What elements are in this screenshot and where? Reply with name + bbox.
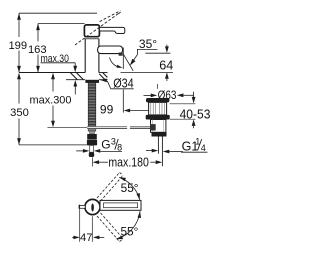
nut top reference (170, 118, 196, 120)
svg-text:G: G (101, 138, 110, 152)
lower reference line hose end (19, 144, 87, 146)
35 degree label (137, 37, 157, 51)
svg-text:max.180: max.180 (108, 156, 149, 170)
hose nut upper (87, 134, 97, 139)
svg-text:99: 99 (100, 102, 114, 116)
svg-text:55°: 55° (121, 181, 139, 195)
faucet body (84, 39, 86, 73)
svg-text:35°: 35° (139, 37, 157, 51)
dimension 64 (159, 45, 173, 81)
drain body upper (149, 102, 167, 115)
35 degree arc with arrow (110, 58, 123, 68)
G 3/8 leader arrows (76, 149, 100, 153)
drain nut (146, 115, 170, 120)
max.30 lower arrow (73, 80, 77, 95)
47 extension lines (79, 205, 81, 242)
svg-text:40-53: 40-53 (180, 107, 211, 122)
hose tip (89, 152, 94, 157)
label 40-53 (180, 107, 211, 129)
tailpipe dimension arrows (146, 149, 183, 154)
body ring (85, 38, 99, 40)
swivel arc lower (116, 211, 141, 239)
svg-text:Ø34: Ø34 (113, 76, 134, 90)
aerator (119, 53, 123, 56)
dimension 47 (72, 232, 104, 244)
lever horizontal (99, 27, 124, 33)
label dia 63 (144, 88, 196, 104)
spout outlet reference line (145, 52, 170, 54)
lever raised dashed (75, 11, 120, 45)
deck hatching (71, 73, 108, 80)
svg-text:3: 3 (111, 137, 116, 147)
top view body circle (85, 199, 100, 214)
spout (98, 46, 123, 54)
dashed swivel position upper (97, 172, 123, 201)
pop-up rod (47, 127, 150, 129)
svg-text:350: 350 (10, 107, 29, 119)
label max.30 (41, 53, 78, 72)
extension line body top (38, 23, 85, 25)
drain centerline (157, 84, 159, 89)
svg-text:8: 8 (117, 142, 122, 152)
svg-text:64: 64 (159, 59, 173, 73)
svg-text:199: 199 (8, 40, 27, 52)
hose tube (90, 145, 94, 152)
label G1 1/4 (181, 136, 207, 153)
extension line lever max height (19, 12, 97, 14)
label G 3/8 (101, 137, 123, 153)
svg-text:max.300: max.300 (30, 95, 72, 107)
drain bottom collar (152, 132, 167, 136)
shank washer (85, 80, 99, 83)
dimension max.300 (30, 73, 72, 128)
lever slot (91, 204, 94, 212)
label dia 34 (100, 76, 134, 90)
deck top line (19, 72, 85, 74)
rod crossing band over shank (87, 126, 98, 129)
dimension 350 (10, 73, 29, 145)
spout outlet extension line (122, 48, 124, 69)
dimension 99 (100, 102, 157, 116)
drain tailpipe (157, 137, 159, 154)
svg-text:55°: 55° (120, 224, 138, 238)
cartridge box (84, 25, 99, 37)
svg-text:4: 4 (201, 143, 206, 153)
hose axis extension (91, 157, 93, 166)
pop-up rod connector (150, 124, 156, 130)
35 degree leader arrow (130, 49, 138, 65)
spout bar inner (104, 203, 138, 208)
svg-text:47: 47 (80, 232, 92, 244)
dimension 163 (28, 24, 47, 73)
spout bar outer (100, 200, 141, 210)
deck bottom line (66, 79, 85, 81)
stream angle ray (124, 55, 134, 71)
drain body lower (151, 120, 166, 133)
label max.180 (93, 156, 163, 170)
flange bottom reference (170, 103, 196, 105)
hose nut lower (87, 140, 97, 146)
swivel arc upper (119, 177, 140, 200)
stub (pop-up knob) (79, 205, 85, 208)
threaded shank (88, 83, 96, 131)
drain flange (146, 98, 169, 102)
dimension 199 (8, 13, 27, 72)
shank neck (90, 131, 95, 134)
dashed swivel position lower (97, 213, 123, 242)
